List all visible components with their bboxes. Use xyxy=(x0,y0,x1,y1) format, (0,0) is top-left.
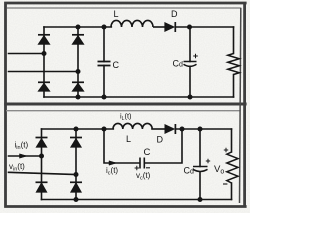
wire: input line iin xyxy=(9,155,42,157)
wire: bridge right column xyxy=(75,129,77,200)
wire: top rail right of D xyxy=(176,26,234,28)
junction: vin input to bridge right leg (bottom fig) xyxy=(74,172,79,177)
diode D (series) xyxy=(165,22,176,32)
junction: capacitor Cd to top rail xyxy=(187,25,192,30)
wire: load branch verticals xyxy=(231,129,233,200)
capacitor Cd plates (bottom fig, polarized) xyxy=(193,167,208,172)
svg-text:vin(t): vin(t) xyxy=(9,162,25,173)
inductor L xyxy=(111,20,153,27)
svg-text:L: L xyxy=(126,134,131,144)
wire: capacitor C branch xyxy=(103,27,105,97)
junction: capacitor Cd to bottom rail xyxy=(188,95,193,100)
wire: top rail between L and D xyxy=(152,128,165,130)
junction: C branch right to top rail (bottom fig) xyxy=(180,127,185,132)
minus sign at C xyxy=(146,167,150,169)
wire: bridge left column xyxy=(43,27,45,97)
wire: C branch loop xyxy=(104,129,182,163)
bridge diode top-left (bottom fig) xyxy=(36,138,48,148)
divider between figures xyxy=(4,103,246,106)
capacitor C plates (bottom fig) xyxy=(140,158,144,169)
wire: Cd branch xyxy=(199,129,201,200)
junction: C branch left to top rail (bottom fig) xyxy=(102,127,107,132)
wire: bottom rail xyxy=(44,96,234,98)
svg-text:D: D xyxy=(171,9,178,19)
bridge diode bottom-right xyxy=(72,82,84,91)
plus sign at Vo xyxy=(224,148,228,152)
junction: bridge right leg to top rail xyxy=(76,25,81,30)
junction: bridge right leg to bottom rail xyxy=(76,95,81,100)
wire: top rail left of L xyxy=(44,26,111,28)
diode D (bottom fig) xyxy=(165,124,176,134)
wire: ac input line 1 xyxy=(9,53,45,55)
bridge diode top-right (bottom fig) xyxy=(70,138,82,148)
bridge diode bottom-left xyxy=(38,82,50,91)
capacitor C plates xyxy=(98,62,111,66)
arrow on iin line xyxy=(20,154,28,158)
wire: top rail right of D xyxy=(176,128,231,130)
load resistor (bottom fig) xyxy=(227,152,238,183)
junction: iin input to bridge left leg (bottom fig) xyxy=(39,154,44,159)
svg-text:vc(t): vc(t) xyxy=(136,171,151,182)
wire: right load branch verticals xyxy=(233,27,235,97)
outer frame (decorative border) xyxy=(4,2,246,208)
junction: ac input 2 to bridge right leg xyxy=(76,69,81,74)
load resistor (top figure) xyxy=(228,54,240,75)
arrow on C branch (ic) xyxy=(109,161,117,165)
capacitor Cd plates (polarized) xyxy=(184,62,197,67)
svg-text:D: D xyxy=(157,135,164,145)
bridge diode bottom-right (bottom fig) xyxy=(70,182,82,192)
svg-text:C: C xyxy=(113,60,120,70)
plus sign at Cd xyxy=(193,54,198,59)
wire: input line vin xyxy=(9,172,77,174)
junction: bridge right leg to bottom rail (bottom fig) xyxy=(74,197,79,202)
inner thin box rule (top) xyxy=(7,7,241,9)
plus sign at C xyxy=(135,166,139,170)
junction: bridge right leg to top rail (bottom fig) xyxy=(74,127,79,132)
minus sign at Vo xyxy=(223,183,227,185)
svg-text:L: L xyxy=(114,9,119,19)
wire: ac input line 2 xyxy=(9,71,79,73)
wire: top rail left of L xyxy=(42,128,114,130)
wire: Cd branch xyxy=(189,27,191,97)
svg-text:C: C xyxy=(144,147,151,158)
inductor L (bottom fig) xyxy=(113,123,152,129)
wire: rail between L and D xyxy=(153,26,165,28)
inner thin box rule (right) xyxy=(240,8,241,203)
bridge diode top-left xyxy=(38,35,50,45)
junction: capacitor Cd to bottom rail (bottom fig) xyxy=(198,197,203,202)
junction: capacitor C to top rail xyxy=(102,25,107,30)
bridge diode bottom-left (bottom fig) xyxy=(36,182,48,192)
bridge diode top-right xyxy=(72,35,84,45)
junction: capacitor C to bottom rail xyxy=(102,95,107,100)
junction: capacitor Cd to top rail (bottom fig) xyxy=(198,127,203,132)
junction: ac input 1 to bridge left leg xyxy=(42,51,47,56)
plus sign at Cd (bottom fig) xyxy=(206,159,210,163)
wire: bottom rail xyxy=(42,199,232,201)
wire: bridge left column xyxy=(41,129,43,200)
wire: bridge right column xyxy=(77,27,79,97)
